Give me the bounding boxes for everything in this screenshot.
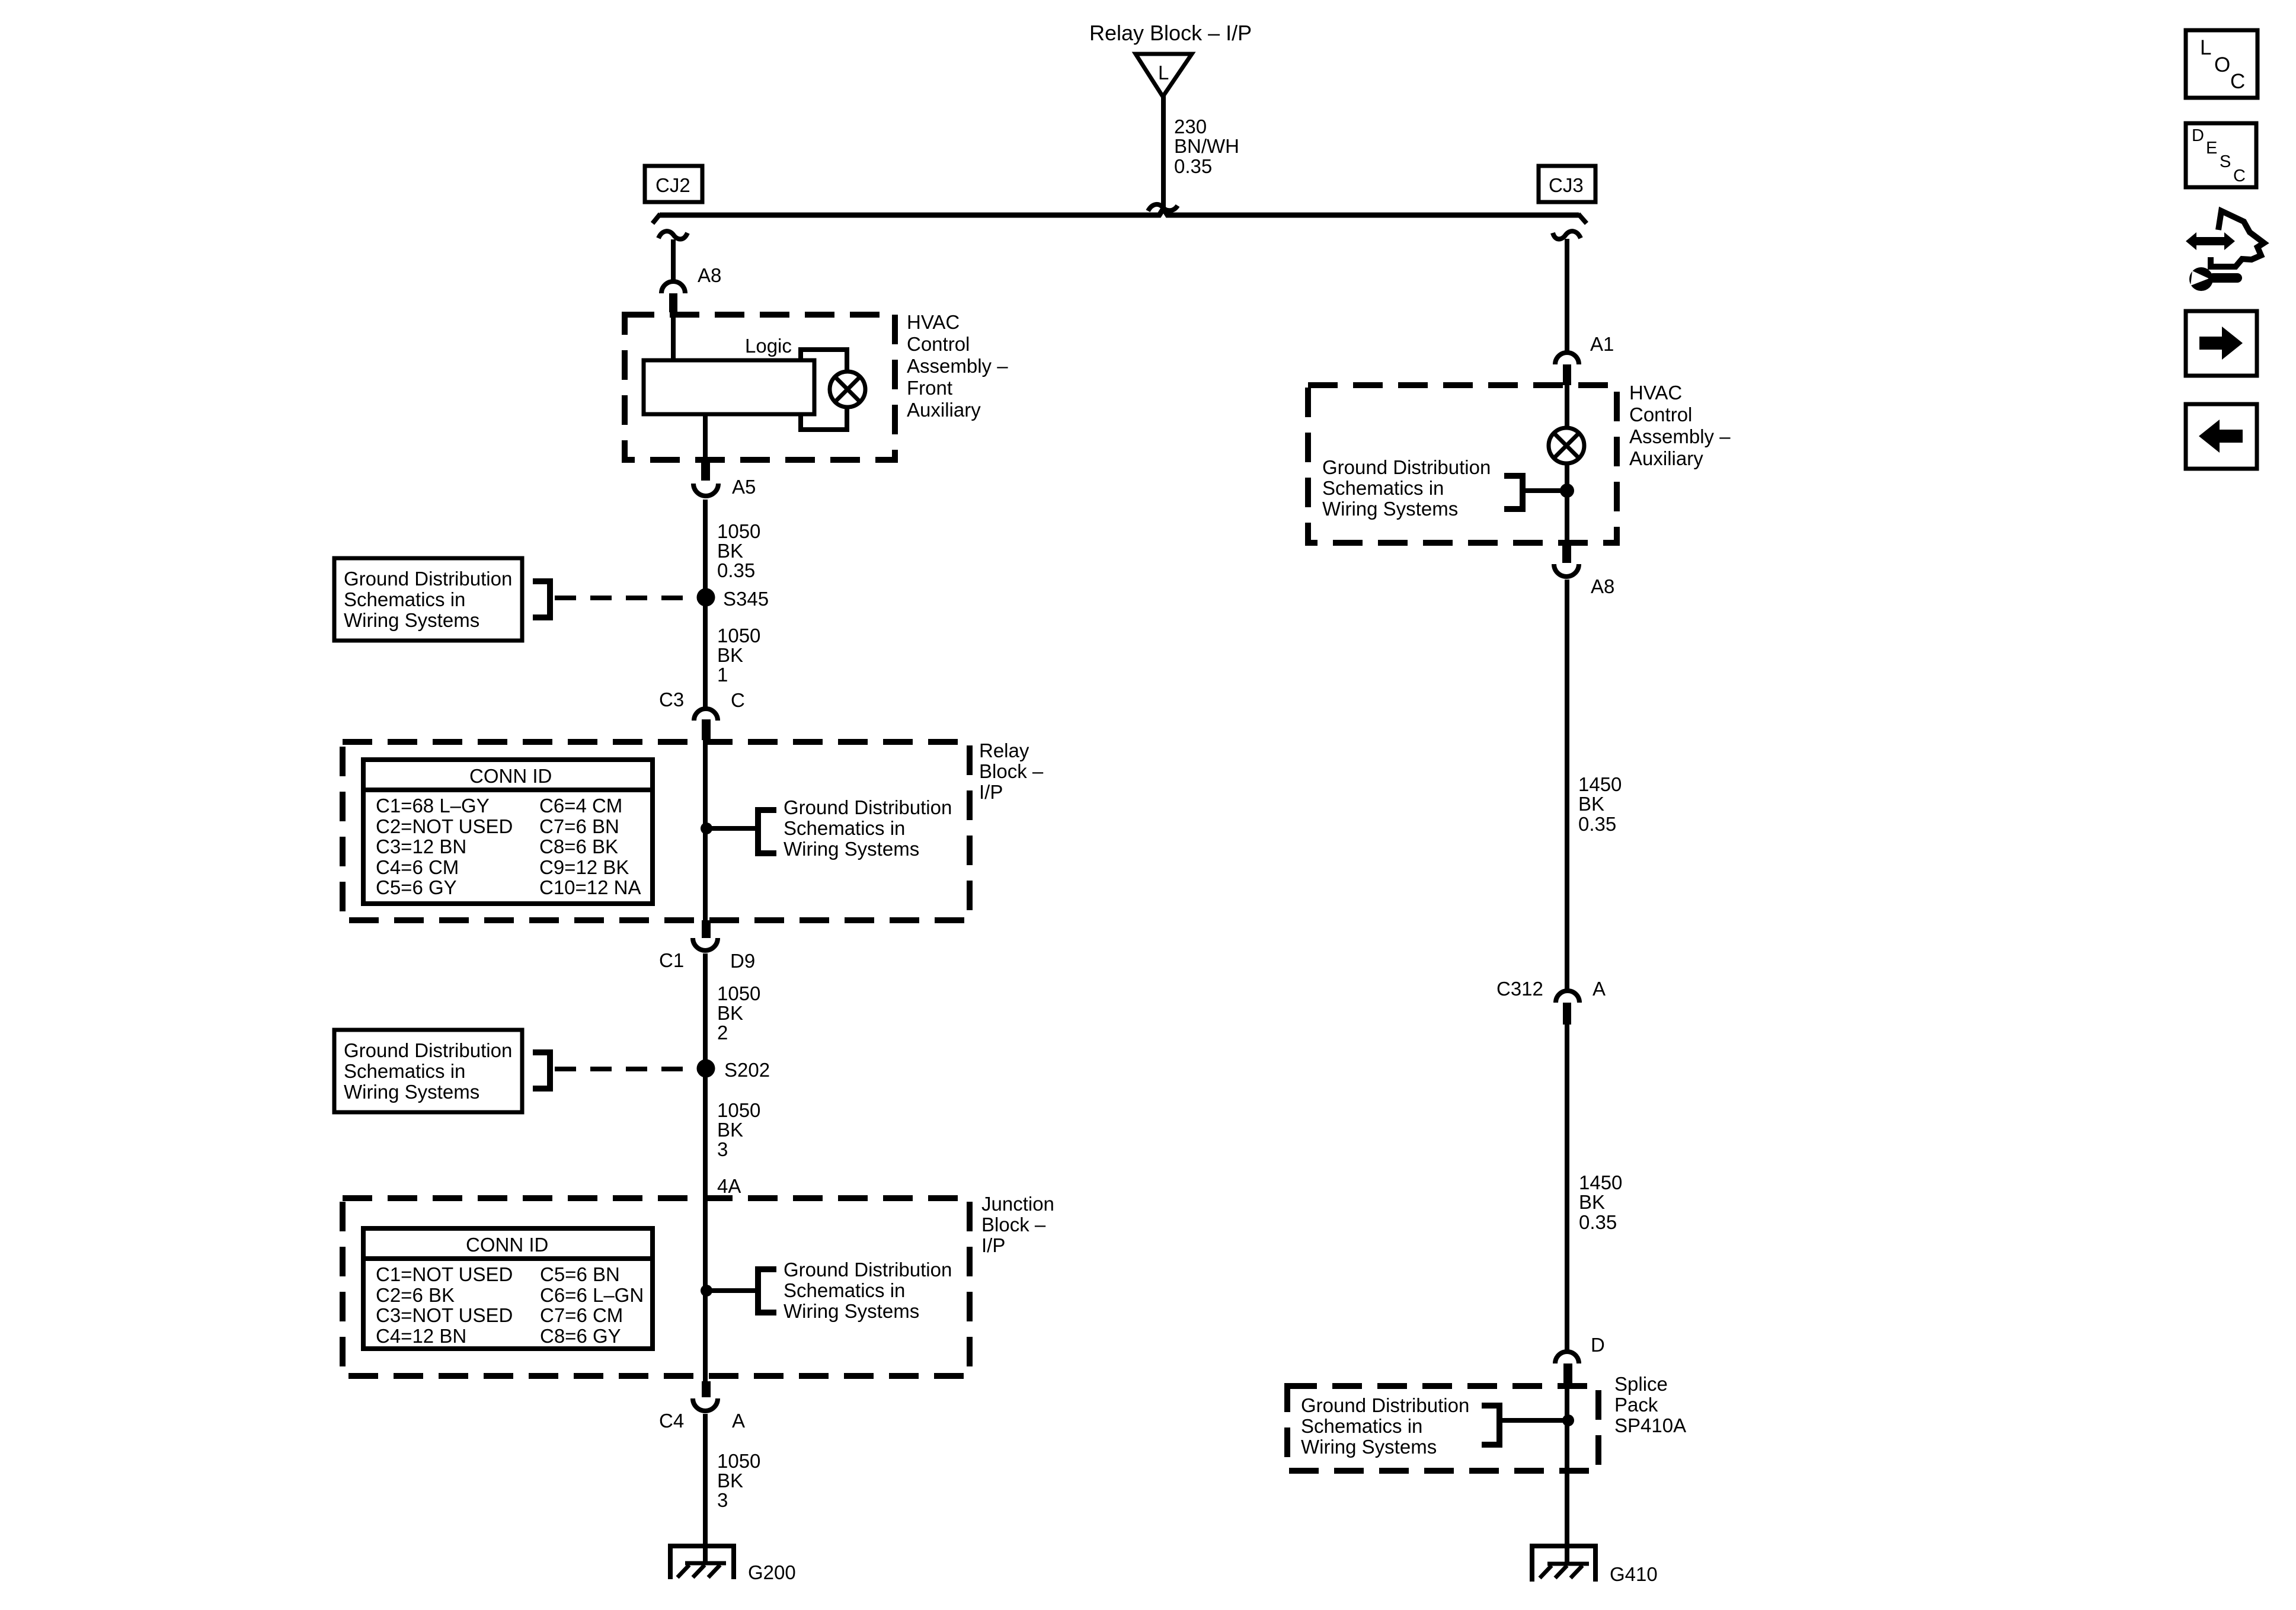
svg-text:CJ3: CJ3 — [1549, 174, 1584, 196]
svg-text:1: 1 — [717, 664, 728, 686]
wire 230 BN/WH from triangle to bus — [1161, 95, 1166, 209]
terminal blade D — [1563, 1363, 1572, 1383]
wire logic to A5 — [703, 414, 708, 463]
svg-text:1450: 1450 — [1579, 1172, 1622, 1193]
indicator lamp (front aux) — [830, 372, 865, 407]
svg-text:Ground Distribution: Ground Distribution — [1322, 456, 1491, 478]
svg-text:Wiring Systems: Wiring Systems — [1301, 1436, 1437, 1458]
wire label 1050 BK 1 — [717, 625, 760, 686]
reference label Ground Distribution (SP410A) — [1301, 1394, 1469, 1458]
dashed reference line to S202 — [555, 1067, 706, 1071]
connector arc A5 — [693, 484, 718, 496]
Junction Block IP dashed box — [343, 1198, 970, 1376]
svg-text:D9: D9 — [730, 950, 755, 972]
svg-text:S202: S202 — [724, 1059, 770, 1081]
terminal blade A8 (aux) — [1562, 543, 1571, 563]
connector arc C312 — [1556, 991, 1579, 1003]
svg-text:Control: Control — [1629, 404, 1692, 425]
reference bracket (junction block) — [758, 1269, 776, 1313]
reference box Ground Distribution (S345) — [334, 558, 522, 641]
terminal A1 label — [1590, 333, 1614, 355]
svg-text:C2=NOT USED: C2=NOT USED — [376, 815, 513, 837]
wire label 230 BN/WH 0.35 — [1174, 116, 1239, 177]
svg-text:G410: G410 — [1610, 1563, 1658, 1585]
connector arc A8 — [661, 281, 685, 293]
svg-text:S: S — [2220, 152, 2231, 171]
svg-text:BK: BK — [1578, 793, 1604, 815]
HVAC Control Assembly Front Auxiliary dashed box — [625, 315, 895, 460]
svg-text:C3=12 BN: C3=12 BN — [376, 836, 466, 857]
svg-text:A1: A1 — [1590, 333, 1614, 355]
wire label 1450 BK 0.35 (lower) — [1579, 1172, 1622, 1233]
label G410 — [1610, 1563, 1658, 1585]
svg-text:Block –: Block – — [981, 1214, 1046, 1235]
icon box arrow right — [2186, 311, 2257, 376]
terminal blade C1 — [702, 920, 711, 938]
svg-text:C2=6 BK: C2=6 BK — [376, 1284, 455, 1306]
svg-text:Ground Distribution: Ground Distribution — [344, 568, 512, 590]
terminal A5 label — [732, 476, 756, 498]
terminal blade C312 — [1563, 1003, 1571, 1025]
icon box arrow left — [2186, 404, 2257, 469]
svg-text:1450: 1450 — [1578, 773, 1622, 795]
svg-text:1050: 1050 — [717, 1099, 760, 1121]
svg-text:Wiring Systems: Wiring Systems — [784, 1300, 919, 1322]
reference bracket (aux) — [1504, 476, 1523, 509]
wire to reference bracket (SP410A) — [1502, 1418, 1567, 1423]
svg-text:C7=6 CM: C7=6 CM — [540, 1304, 623, 1326]
svg-text:Schematics in: Schematics in — [784, 817, 905, 839]
wire label 1050 BK 0.35 — [717, 520, 760, 581]
svg-text:0.35: 0.35 — [1174, 155, 1212, 177]
svg-text:Wiring Systems: Wiring Systems — [784, 838, 919, 860]
svg-text:Junction: Junction — [981, 1193, 1054, 1215]
reference bracket (SP410A) — [1482, 1406, 1499, 1445]
svg-text:4A: 4A — [717, 1175, 741, 1197]
terminal blade C4 — [702, 1381, 711, 1397]
svg-text:C9=12 BK: C9=12 BK — [539, 856, 629, 878]
svg-text:Ground Distribution: Ground Distribution — [344, 1039, 512, 1061]
svg-text:3: 3 — [717, 1489, 728, 1511]
terminal blade A1 — [1563, 364, 1571, 385]
svg-text:Front: Front — [907, 377, 952, 399]
wire label 1050 BK 2 — [717, 982, 760, 1044]
svg-text:S345: S345 — [723, 588, 769, 610]
svg-text:Relay: Relay — [979, 740, 1029, 761]
reference bracket (S345) — [533, 581, 550, 617]
svg-text:Wiring Systems: Wiring Systems — [1322, 498, 1458, 520]
svg-text:Logic: Logic — [745, 335, 792, 357]
svg-text:HVAC: HVAC — [907, 311, 960, 333]
ground G410 — [1530, 1544, 1598, 1582]
icon vehicle service (double arrow, car outline, wrench) — [2186, 211, 2264, 291]
svg-text:C: C — [2233, 167, 2246, 185]
svg-text:BK: BK — [717, 644, 743, 666]
junction dot (relay block) — [701, 822, 712, 834]
reference label Ground Distribution (aux) — [1322, 456, 1491, 520]
terminal A8 label — [698, 264, 721, 286]
svg-text:C5=6 GY: C5=6 GY — [376, 876, 457, 898]
wire A8 to C312 — [1565, 580, 1569, 991]
svg-text:C5=6 BN: C5=6 BN — [540, 1263, 620, 1285]
reference label Ground Distribution (relay block) — [784, 796, 952, 860]
wire label 1050 BK 3 (to G200) — [717, 1450, 760, 1511]
svg-text:Control: Control — [907, 333, 970, 355]
wire clip below CJ3 — [1553, 231, 1581, 239]
svg-text:C3=NOT USED: C3=NOT USED — [376, 1304, 513, 1326]
svg-text:Wiring Systems: Wiring Systems — [344, 609, 479, 631]
svg-text:C: C — [731, 689, 745, 711]
label Junction Block - I/P — [981, 1193, 1054, 1256]
wire CJ2 A8 to HVAC front aux — [671, 239, 676, 281]
wire C1 to junction block — [703, 953, 708, 1383]
svg-text:1050: 1050 — [717, 625, 760, 646]
wire C312 to D — [1565, 1025, 1569, 1352]
indicator lamp (auxiliary) — [1549, 428, 1584, 463]
wire lamp to A8 (aux) — [1565, 463, 1569, 545]
svg-text:230: 230 — [1174, 116, 1207, 137]
terminal blade A8 — [669, 293, 677, 312]
terminal blade A5 — [701, 462, 710, 481]
reference label Ground Distribution (junction block) — [784, 1259, 952, 1322]
svg-text:Block –: Block – — [979, 760, 1044, 782]
wire through relay block — [703, 740, 708, 922]
svg-text:Ground Distribution: Ground Distribution — [1301, 1394, 1469, 1416]
svg-text:Auxiliary: Auxiliary — [1629, 447, 1703, 469]
terminal A8 label (aux) — [1591, 575, 1614, 597]
label Splice Pack SP410A — [1614, 1373, 1686, 1436]
CONN ID table (relay block) — [363, 760, 653, 904]
svg-text:Assembly –: Assembly – — [907, 355, 1008, 377]
svg-text:0.35: 0.35 — [1579, 1211, 1617, 1233]
svg-text:A: A — [732, 1410, 745, 1432]
svg-text:Wiring Systems: Wiring Systems — [344, 1081, 479, 1103]
svg-text:Ground Distribution: Ground Distribution — [784, 1259, 952, 1281]
splice hook at bus under triangle wire — [1148, 204, 1178, 211]
connector arc C4 — [693, 1398, 718, 1411]
wire A5 to S345 — [703, 500, 708, 709]
power feed triangle L — [1136, 54, 1192, 97]
logic module box — [644, 360, 814, 414]
junction dot (aux lamp ground) — [1560, 484, 1574, 498]
Splice Pack SP410A dashed box — [1287, 1386, 1598, 1471]
wire to reference bracket (aux) — [1526, 488, 1567, 493]
wire A8 blade to logic module — [671, 312, 676, 360]
connector label CJ3 — [1539, 166, 1595, 202]
label Relay Block - I/P — [979, 740, 1044, 803]
junction dot SP410A — [1562, 1414, 1574, 1426]
svg-text:C312: C312 — [1496, 978, 1543, 1000]
svg-text:2: 2 — [717, 1022, 728, 1044]
wire to reference bracket (junction block) — [706, 1288, 757, 1293]
wire loop to indicator lamp — [801, 350, 847, 430]
reference box Ground Distribution (S202) — [334, 1030, 522, 1112]
svg-text:O: O — [2214, 53, 2230, 76]
svg-text:C1=68 L–GY: C1=68 L–GY — [376, 795, 490, 817]
label Relay Block - I/P (top feed) — [1089, 21, 1252, 45]
bus wire CJ2 to CJ3 with pass-through bump — [660, 209, 1579, 215]
svg-text:C8=6 GY: C8=6 GY — [540, 1325, 621, 1347]
terminal label 4A — [717, 1175, 741, 1197]
svg-text:Schematics in: Schematics in — [344, 588, 465, 610]
HVAC Control Assembly Auxiliary dashed box — [1308, 385, 1617, 543]
svg-text:C3: C3 — [659, 689, 684, 710]
wire label 1050 BK 3 — [717, 1099, 760, 1160]
junction dot (junction block) — [701, 1285, 712, 1297]
splice S345 — [697, 588, 715, 607]
svg-text:Schematics in: Schematics in — [1322, 477, 1444, 499]
terminal label D — [1591, 1334, 1605, 1356]
svg-text:3: 3 — [717, 1138, 728, 1160]
svg-text:C1: C1 — [659, 949, 684, 971]
connector arc A1 — [1555, 353, 1579, 364]
bus end tick right — [1578, 214, 1587, 223]
svg-text:A: A — [1593, 978, 1606, 1000]
svg-text:Pack: Pack — [1614, 1394, 1658, 1416]
svg-text:L: L — [1158, 62, 1169, 84]
svg-text:BK: BK — [717, 540, 743, 562]
wire through splice pack to ground — [1565, 1383, 1569, 1565]
reference bracket (relay block) — [758, 810, 776, 853]
icon box DESC — [2186, 123, 2256, 187]
svg-text:C4=12 BN: C4=12 BN — [376, 1325, 466, 1347]
svg-text:A8: A8 — [1591, 575, 1614, 597]
svg-text:I/P: I/P — [979, 781, 1003, 803]
svg-text:E: E — [2206, 139, 2217, 158]
wire C4 to G200 — [703, 1414, 708, 1564]
svg-text:Splice: Splice — [1614, 1373, 1668, 1395]
svg-text:BK: BK — [1579, 1191, 1605, 1213]
terminal labels C1 / D9 — [659, 949, 755, 972]
dashed reference line to S345 — [555, 596, 706, 600]
svg-text:Schematics in: Schematics in — [1301, 1415, 1422, 1437]
svg-text:CONN ID: CONN ID — [466, 1234, 548, 1256]
terminal blade C3 — [702, 719, 711, 740]
ground G200 — [668, 1544, 736, 1579]
svg-text:1050: 1050 — [717, 982, 760, 1004]
svg-text:1050: 1050 — [717, 1450, 760, 1472]
svg-text:G200: G200 — [748, 1561, 796, 1583]
wire CJ3 to A1 — [1565, 239, 1569, 353]
svg-text:C7=6 BN: C7=6 BN — [539, 815, 619, 837]
svg-text:0.35: 0.35 — [717, 559, 755, 581]
connector label CJ2 — [645, 166, 702, 202]
svg-text:BK: BK — [717, 1119, 743, 1141]
svg-text:SP410A: SP410A — [1614, 1414, 1686, 1436]
reference bracket (S202) — [533, 1052, 550, 1089]
svg-text:CJ2: CJ2 — [655, 174, 690, 196]
svg-text:Schematics in: Schematics in — [784, 1279, 905, 1301]
connector arc D — [1555, 1352, 1579, 1363]
wire label 1450 BK 0.35 (upper) — [1578, 773, 1622, 835]
svg-text:HVAC: HVAC — [1629, 382, 1682, 404]
icon box LOC — [2186, 30, 2257, 98]
bus end tick left — [653, 214, 660, 223]
Relay Block IP dashed box — [343, 742, 970, 920]
label S345 — [723, 588, 769, 610]
svg-text:Relay Block – I/P: Relay Block – I/P — [1089, 21, 1252, 45]
svg-text:BK: BK — [717, 1470, 743, 1491]
wire A1 to lamp — [1565, 385, 1569, 429]
label HVAC Control Assembly - Front Auxiliary — [907, 311, 1008, 421]
svg-text:Assembly –: Assembly – — [1629, 425, 1731, 447]
svg-text:D: D — [2192, 126, 2204, 145]
svg-text:BN/WH: BN/WH — [1174, 135, 1239, 157]
terminal labels C312 / A — [1496, 978, 1606, 1000]
connector arc A8 (aux) — [1554, 564, 1579, 577]
connector arc C3 — [694, 709, 718, 721]
svg-text:C10=12 NA: C10=12 NA — [539, 876, 641, 898]
wire clip below CJ2 — [658, 231, 687, 239]
svg-text:A5: A5 — [732, 476, 756, 498]
splice S202 — [697, 1060, 715, 1078]
svg-text:L: L — [2200, 36, 2211, 59]
svg-text:Ground Distribution: Ground Distribution — [784, 796, 952, 818]
svg-text:C6=6 L–GN: C6=6 L–GN — [540, 1284, 644, 1306]
label Logic — [745, 335, 792, 357]
svg-text:BK: BK — [717, 1002, 743, 1024]
svg-text:Auxiliary: Auxiliary — [907, 399, 981, 421]
svg-text:I/P: I/P — [981, 1234, 1005, 1256]
svg-text:C1=NOT USED: C1=NOT USED — [376, 1263, 513, 1285]
terminal labels C3 / C — [659, 689, 745, 711]
label S202 — [724, 1059, 770, 1081]
CONN ID table (junction block) — [363, 1228, 653, 1349]
wire to reference bracket (relay block) — [706, 826, 757, 831]
svg-text:1050: 1050 — [717, 520, 760, 542]
label G200 — [748, 1561, 796, 1583]
label HVAC Control Assembly - Auxiliary — [1629, 382, 1731, 469]
svg-text:C4=6 CM: C4=6 CM — [376, 856, 459, 878]
svg-text:0.35: 0.35 — [1578, 813, 1616, 835]
svg-text:CONN ID: CONN ID — [469, 765, 552, 787]
terminal labels C4 / A — [659, 1410, 745, 1432]
svg-text:A8: A8 — [698, 264, 721, 286]
svg-text:C: C — [2230, 70, 2245, 93]
svg-text:Schematics in: Schematics in — [344, 1060, 465, 1082]
svg-text:C6=4 CM: C6=4 CM — [539, 795, 622, 817]
connector arc C1 — [693, 938, 718, 950]
svg-text:D: D — [1591, 1334, 1605, 1356]
svg-text:C8=6 BK: C8=6 BK — [539, 836, 618, 857]
svg-text:C4: C4 — [659, 1410, 684, 1432]
